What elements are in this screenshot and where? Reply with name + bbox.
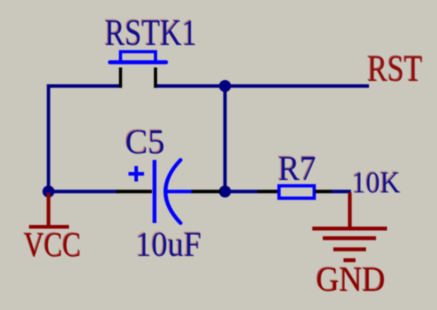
push button RSTK1: contact bar — [110, 60, 166, 64]
resistor R7: pin 1 (left, black) — [258, 190, 279, 193]
capacitor C5: negative curved plate — [166, 160, 181, 223]
svg-text:VCC: VCC — [24, 225, 81, 264]
ground symbol GND: bar 3 — [333, 247, 366, 251]
wire: VCC node to capacitor — [49, 190, 119, 193]
svg-text:GND: GND — [316, 260, 385, 299]
junction: node VCC (left) — [43, 186, 55, 198]
wire: capacitor to resistor — [220, 190, 258, 193]
svg-text:RST: RST — [368, 48, 423, 89]
resistor R7: body — [279, 186, 314, 198]
wire: top-left horizontal + left vertical (corner) — [49, 86, 123, 192]
svg-text:C5: C5 — [125, 123, 165, 162]
svg-text:R7: R7 — [278, 149, 316, 188]
push button RSTK1: pin 1 — [119, 68, 122, 88]
svg-text:RSTK1: RSTK1 — [105, 12, 197, 53]
ground symbol GND: bar 4 — [344, 258, 356, 262]
wire: resistor to GND corner — [331, 190, 351, 193]
ground symbol GND: stem — [348, 193, 352, 229]
push button RSTK1: actuator cap — [121, 52, 156, 62]
capacitor C5: pin - (right, black) — [192, 190, 222, 193]
junction: node RST (top) — [219, 80, 231, 92]
svg-text:10uF: 10uF — [136, 225, 202, 264]
push button RSTK1: pin 2 — [154, 68, 157, 88]
wire: middle vertical (node RST to cap node) — [223, 86, 226, 192]
junction: capacitor/resistor node — [219, 186, 231, 198]
power symbol VCC: bar — [29, 225, 69, 229]
wire: top horizontal to RST — [154, 84, 369, 87]
capacitor C5: pin + (left, black) — [117, 190, 153, 193]
power symbol VCC: stem — [47, 193, 51, 227]
resistor R7: pin 2 (right, black) — [315, 190, 332, 193]
svg-text:10K: 10K — [352, 165, 401, 200]
capacitor C5: plus sign — [129, 166, 145, 182]
capacitor C5: positive plate — [153, 160, 157, 223]
ground symbol GND: bar 2 — [323, 236, 376, 240]
ground symbol GND: bar 1 — [312, 227, 387, 231]
capacitor C5: stub from curved plate — [167, 190, 193, 193]
